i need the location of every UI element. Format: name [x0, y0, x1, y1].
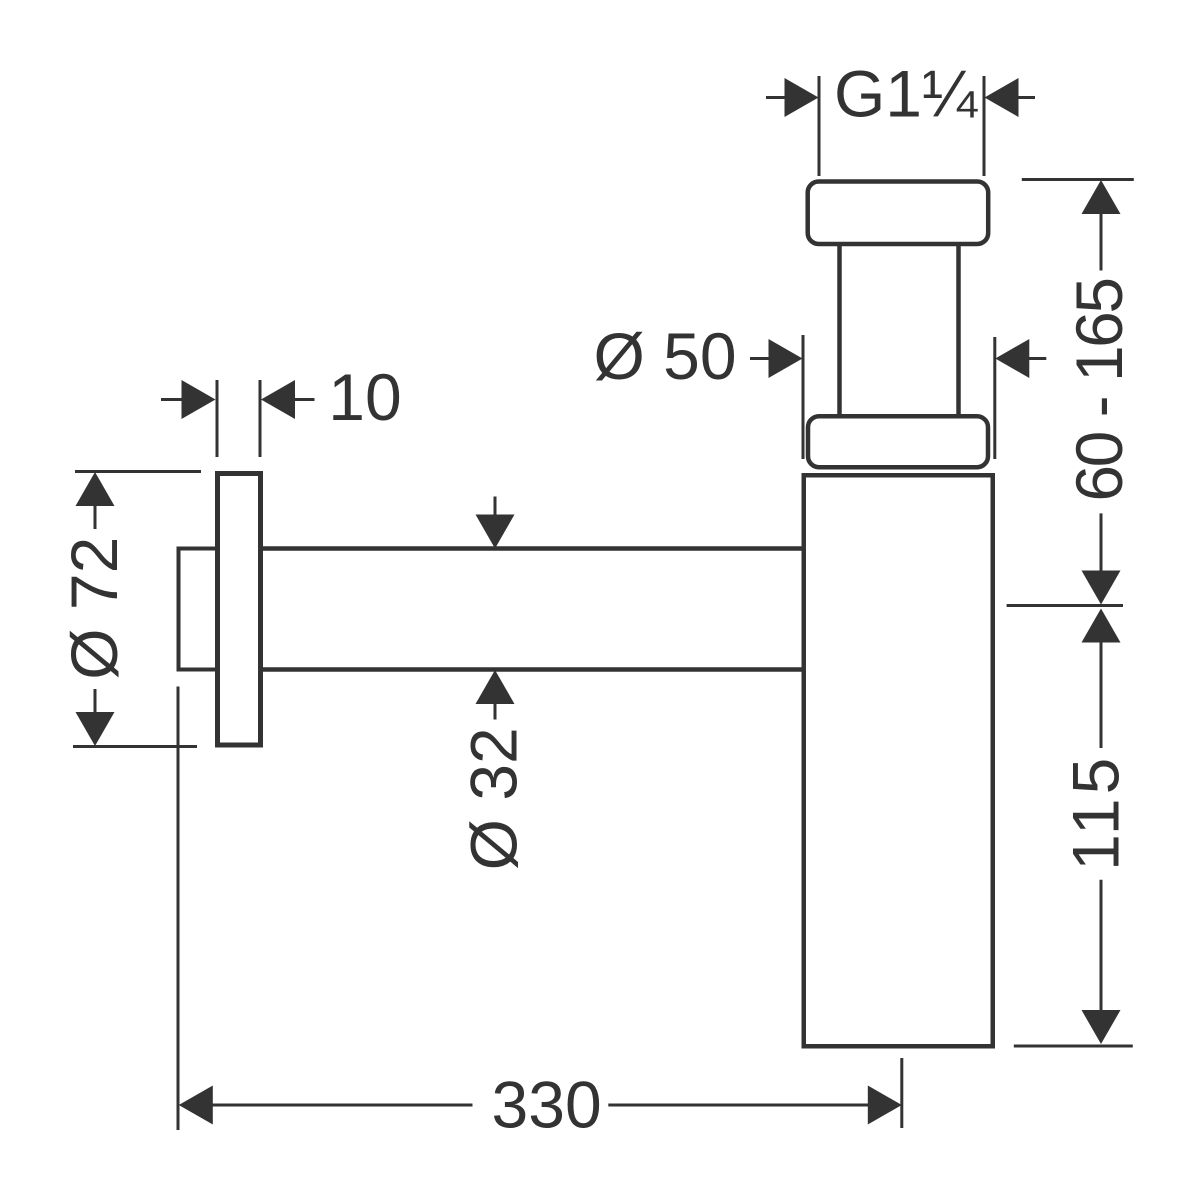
wire — [260, 667, 802, 672]
lower nut — [808, 416, 988, 467]
wire — [260, 546, 802, 551]
svg-text:G1¼: G1¼ — [834, 57, 978, 131]
arrowhead 60-165 top — [1082, 180, 1121, 214]
dimension 115 — [1014, 641, 1133, 1046]
arrowhead 330 left — [179, 1086, 213, 1125]
dimension 60 - 165 — [1007, 180, 1134, 606]
arrowhead dia72 top — [76, 472, 115, 506]
wall flange — [218, 474, 261, 746]
svg-text:Ø 50: Ø 50 — [593, 319, 736, 393]
wire — [956, 244, 961, 415]
arrowhead 10 left — [182, 380, 216, 419]
svg-text:10: 10 — [328, 360, 401, 434]
dimension 10 — [161, 380, 315, 457]
svg-text:Ø 32: Ø 32 — [457, 727, 531, 870]
arrowhead G dim right — [985, 78, 1019, 117]
arrowhead 115 bottom — [1082, 1010, 1121, 1044]
svg-text:Ø 72: Ø 72 — [57, 537, 131, 680]
arrowhead dia32 top — [476, 515, 515, 549]
arrowhead dia50 left — [769, 339, 803, 378]
arrowhead 115 top — [1082, 609, 1121, 643]
arrowhead dia32 bottom — [476, 670, 515, 704]
wall stub — [179, 549, 218, 670]
wire — [837, 244, 842, 415]
dimension diameter 32 — [494, 497, 497, 720]
svg-text:60 - 165: 60 - 165 — [1062, 279, 1136, 501]
top nut — [808, 182, 989, 245]
arrowhead dia50 right — [995, 339, 1029, 378]
dimension diameter 50 — [750, 335, 1046, 459]
svg-text:115: 115 — [1059, 754, 1133, 871]
arrowhead 60-165 bottom — [1082, 571, 1121, 605]
arrowhead dia72 bottom — [76, 712, 115, 746]
dimension 330 — [178, 687, 902, 1131]
dimension G 1 1/4 — [766, 76, 1035, 176]
trap body — [804, 475, 993, 1046]
arrowhead G dim left — [785, 78, 819, 117]
svg-text:330: 330 — [492, 1068, 602, 1142]
arrowhead 10 right — [261, 380, 295, 419]
dimension diameter 72 — [73, 472, 201, 747]
arrowhead 330 right — [868, 1086, 902, 1125]
